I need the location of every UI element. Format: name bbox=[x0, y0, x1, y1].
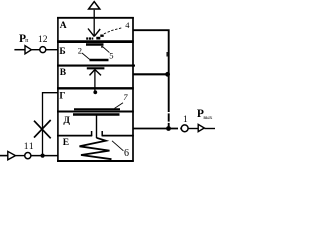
supply flow arrow triangle bbox=[25, 46, 31, 54]
label P pit bbox=[19, 33, 29, 45]
svg-text:В: В bbox=[60, 68, 67, 78]
seat blocks left of poppet bbox=[86, 37, 93, 39]
nozzle arrow left wing bbox=[90, 70, 95, 76]
svg-text:11: 11 bbox=[24, 142, 35, 152]
junction dot right upper bbox=[165, 72, 170, 77]
gap artifacts on right vertical bbox=[167, 112, 169, 123]
output wire from D bbox=[133, 128, 178, 130]
svg-text:Г: Г bbox=[59, 92, 65, 102]
leader to label 5 bbox=[103, 47, 110, 53]
leader from 2 to membrane bar bbox=[82, 53, 91, 60]
throttle X stroke 1 bbox=[34, 121, 51, 139]
svg-text:А: А bbox=[60, 21, 67, 31]
wire arrow to port 12 bbox=[32, 49, 40, 51]
svg-text:2: 2 bbox=[78, 45, 82, 55]
wire V exit right bbox=[133, 73, 169, 75]
lever bar item 7 in G bbox=[74, 108, 120, 110]
block left edge bbox=[57, 17, 59, 162]
port circle 12 bbox=[40, 47, 46, 53]
svg-text:Е: Е bbox=[63, 138, 69, 148]
poppet valve seat V left arm bbox=[88, 29, 94, 37]
nozzle arrow right wing bbox=[95, 70, 101, 76]
throttle X stroke 2 bbox=[34, 120, 51, 138]
block right edge bbox=[132, 17, 134, 162]
output wire tail bbox=[204, 128, 215, 130]
vent line bbox=[93, 10, 95, 37]
svg-text:вых: вых bbox=[203, 115, 212, 121]
spring item 6 in E bbox=[80, 138, 112, 159]
svg-text:6: 6 bbox=[124, 148, 129, 159]
svg-text:7: 7 bbox=[123, 92, 128, 102]
svg-text:Д: Д bbox=[63, 116, 70, 126]
junction dot below V/G bbox=[93, 90, 97, 94]
junction dot right lower bbox=[166, 126, 171, 131]
tap wire from G to throttle bbox=[43, 93, 58, 156]
D/E left tick bbox=[91, 131, 93, 136]
block top edge (chamber A top) bbox=[57, 17, 134, 19]
output flow arrow triangle bbox=[198, 124, 204, 131]
nozzle stem bbox=[94, 70, 96, 92]
poppet valve seat V right arm bbox=[94, 29, 100, 36]
seat block right of poppet bbox=[96, 37, 100, 40]
flapper bar item 5 below A/B bbox=[86, 43, 104, 46]
membrane bar in D bbox=[73, 113, 120, 116]
vent triangle atmosphere bbox=[89, 2, 100, 9]
partition B/V bbox=[57, 65, 135, 67]
wire port 11 to block bbox=[31, 155, 58, 157]
wire to output arrow bbox=[188, 128, 198, 130]
feedback flow arrow triangle bbox=[8, 151, 16, 159]
flapper tick bbox=[101, 46, 103, 48]
leader to label 4 dashed bbox=[104, 28, 123, 34]
svg-text:1: 1 bbox=[183, 115, 188, 125]
partition D/E right part bbox=[102, 135, 134, 137]
D/E right tick bbox=[101, 131, 103, 136]
nozzle bar in V bbox=[87, 67, 105, 69]
speck on right vertical bbox=[167, 52, 168, 57]
supply wire left stub bbox=[14, 49, 24, 51]
membrane bar item 2 in B bbox=[90, 59, 109, 62]
port circle 1 bbox=[181, 125, 188, 132]
partition D/E left part bbox=[57, 135, 92, 137]
leader to label 6 bbox=[112, 141, 123, 151]
membrane stem in D bbox=[96, 116, 98, 139]
block bottom edge bbox=[57, 160, 134, 162]
wire port 12 to block bbox=[46, 49, 58, 51]
step block item 4 target bbox=[100, 35, 103, 37]
feedback wire left stub bbox=[0, 155, 8, 157]
svg-text:12: 12 bbox=[38, 35, 48, 45]
partition G/D bbox=[57, 111, 134, 113]
svg-text:Б: Б bbox=[59, 47, 65, 57]
svg-text:5: 5 bbox=[109, 50, 113, 60]
wire A exit right bbox=[133, 30, 169, 128]
junction dot bottom bbox=[41, 154, 45, 158]
svg-text:4: 4 bbox=[125, 20, 130, 30]
partition A/B thick bbox=[57, 40, 134, 43]
svg-text:п: п bbox=[25, 38, 29, 44]
leader to label 7 bbox=[115, 103, 124, 109]
port circle 11 bbox=[25, 153, 31, 159]
wire arrow to port 11 bbox=[16, 155, 25, 157]
label P vyh bbox=[197, 108, 213, 121]
partition V/G thick bbox=[57, 87, 134, 89]
